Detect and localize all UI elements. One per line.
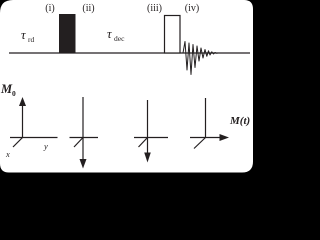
svg-text:(i): (i) bbox=[45, 3, 54, 14]
vector M down arrowhead A2 bbox=[80, 159, 87, 169]
svg-text:rd: rd bbox=[28, 35, 34, 44]
pulse P1 (filled) bbox=[59, 14, 76, 53]
vector M(t) right arrowhead bbox=[220, 134, 230, 141]
white card bbox=[0, 0, 253, 173]
svg-text:y: y bbox=[43, 141, 48, 151]
svg-text:M(t): M(t) bbox=[229, 115, 250, 127]
FID signal bbox=[181, 42, 251, 75]
svg-text:(ii): (ii) bbox=[82, 3, 94, 14]
vector M down arrowhead A3 bbox=[144, 153, 151, 163]
vector M0 up arrowhead bbox=[19, 97, 26, 106]
svg-text:x: x bbox=[5, 149, 10, 159]
svg-text:0: 0 bbox=[12, 89, 16, 98]
axes A3 bbox=[134, 100, 168, 153]
wire baseline bbox=[9, 52, 250, 54]
svg-text:dec: dec bbox=[114, 34, 125, 43]
axes A4 bbox=[190, 98, 221, 149]
axes A1 bbox=[10, 105, 58, 147]
svg-text:(iv): (iv) bbox=[185, 3, 199, 14]
pulse P2 (open) bbox=[165, 16, 181, 54]
axes A2 bbox=[70, 97, 99, 160]
svg-text:(iii): (iii) bbox=[147, 3, 162, 14]
